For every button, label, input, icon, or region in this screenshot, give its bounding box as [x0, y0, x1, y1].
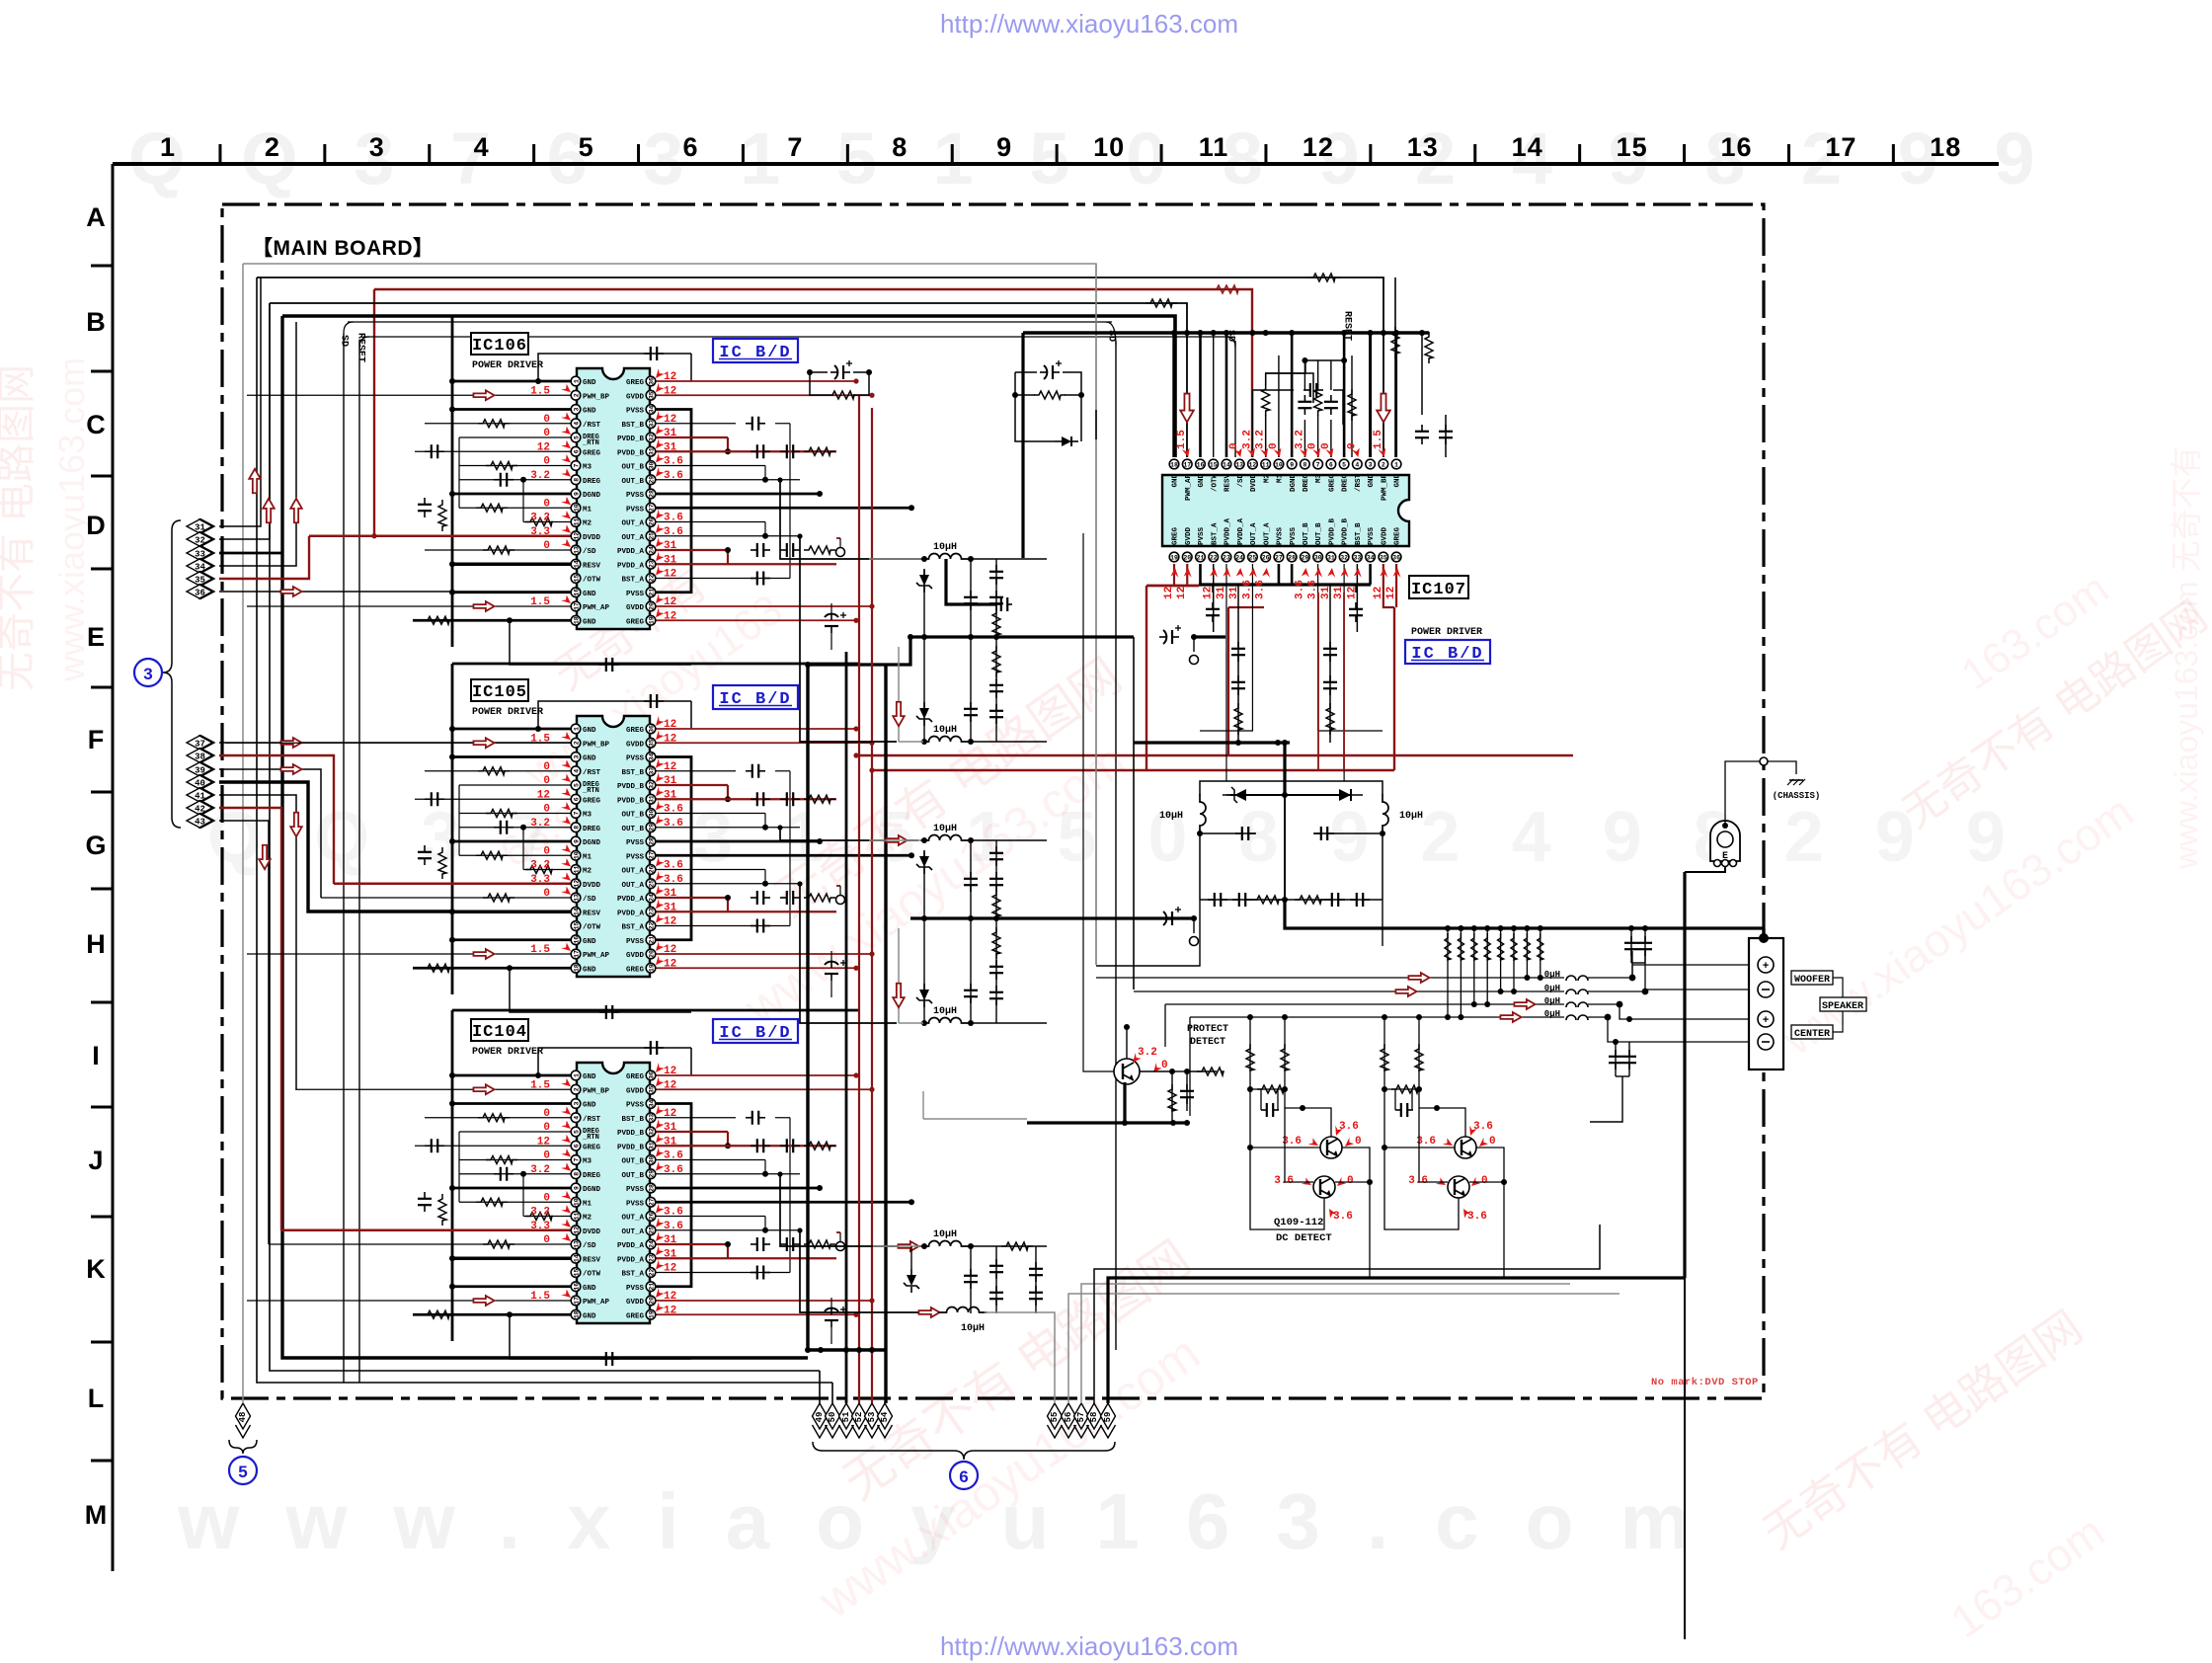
svg-text:3.6: 3.6: [664, 513, 683, 524]
main board dash-dot border: [222, 204, 1764, 1398]
svg-text:0: 0: [543, 775, 550, 787]
svg-text:BST_A: BST_A: [621, 577, 644, 585]
pink watermark center: [734, 648, 1135, 1037]
svg-text:6: 6: [1329, 461, 1333, 468]
sd label right: [1225, 330, 1236, 342]
svg-text:31: 31: [1333, 586, 1345, 599]
svg-text:8: 8: [1303, 461, 1306, 468]
op-amp IC104 power driver: [530, 1063, 683, 1323]
svg-text:M2: M2: [583, 868, 592, 876]
svg-text:8: 8: [573, 1172, 580, 1176]
svg-text:GVDD: GVDD: [1381, 526, 1388, 545]
svg-text:11: 11: [573, 1213, 580, 1221]
connector pin 40: [187, 775, 214, 790]
svg-text:31: 31: [648, 447, 655, 455]
svg-text:16: 16: [573, 1283, 580, 1291]
svg-text:31: 31: [664, 888, 677, 900]
svg-text:3.6: 3.6: [664, 1221, 683, 1232]
speaker line 4: [1190, 1014, 1758, 1116]
svg-text:1: 1: [160, 132, 176, 162]
svg-text:IC104: IC104: [472, 1023, 527, 1042]
svg-text:6: 6: [573, 1144, 580, 1148]
svg-text:BST_B: BST_B: [1355, 522, 1363, 545]
svg-text:0: 0: [1355, 1136, 1362, 1148]
ic107 bus dots: [1184, 330, 1386, 336]
svg-text:M3: M3: [1315, 474, 1323, 484]
svg-text:28: 28: [648, 490, 655, 498]
svg-text:3.2: 3.2: [1138, 1047, 1157, 1059]
svg-text:/RST: /RST: [1355, 474, 1363, 493]
svg-text:17: 17: [573, 950, 580, 958]
pink watermark right-low: [1754, 1301, 2113, 1647]
speaker connector box: [1749, 933, 1783, 1069]
caps right pair2: [1590, 1016, 1636, 1122]
svg-text:D: D: [86, 511, 106, 540]
svg-text:31: 31: [648, 795, 655, 803]
svg-text:GND: GND: [1394, 474, 1402, 488]
svg-text:10μH: 10μH: [1159, 811, 1183, 822]
svg-text:PVSS: PVSS: [1198, 526, 1206, 545]
wire conn43: [219, 821, 269, 1244]
svg-text:3.6: 3.6: [664, 470, 683, 482]
svg-text:7: 7: [573, 1157, 580, 1161]
svg-text:12: 12: [573, 1227, 580, 1234]
svg-text:PVSS: PVSS: [626, 506, 645, 514]
svg-text:12: 12: [537, 789, 550, 801]
connector pin 59: [1101, 1403, 1116, 1438]
svg-text:10: 10: [1275, 461, 1283, 468]
svg-text:OUT_A: OUT_A: [1250, 522, 1258, 545]
svg-text:9: 9: [573, 1186, 580, 1190]
arrow down to IC107 pin17: [1180, 394, 1194, 423]
svg-text:10μH: 10μH: [933, 542, 957, 553]
svg-text:DREG: DREG: [1342, 474, 1350, 493]
svg-text:PVSS: PVSS: [626, 755, 645, 763]
svg-text:12: 12: [664, 1305, 676, 1316]
svg-text:0: 0: [1489, 1136, 1496, 1148]
svg-text:7: 7: [573, 463, 580, 467]
svg-text:49: 49: [815, 1412, 825, 1423]
svg-text:16: 16: [573, 936, 580, 944]
svg-text:23: 23: [648, 908, 655, 915]
svg-text:DVDD: DVDD: [583, 534, 601, 542]
svg-text:30: 30: [648, 810, 655, 818]
wire gray top bus: [243, 264, 1096, 965]
svg-text:0: 0: [1481, 1175, 1488, 1187]
woofer label: [1791, 971, 1833, 986]
svg-text:DETECT: DETECT: [1190, 1037, 1225, 1048]
svg-text:BST_A: BST_A: [621, 1271, 644, 1279]
svg-text:0μH: 0μH: [1544, 1009, 1560, 1019]
svg-text:PVDD_A: PVDD_A: [1237, 517, 1245, 545]
svg-text:33: 33: [648, 1114, 655, 1122]
pink watermark center-low: [808, 1230, 1209, 1629]
svg-text:31: 31: [664, 441, 677, 453]
svg-text:PVDD_B: PVDD_B: [617, 783, 645, 791]
svg-text:BST_A: BST_A: [1211, 522, 1219, 545]
svg-text:No mark:DVD STOP: No mark:DVD STOP: [1651, 1377, 1759, 1388]
svg-text:GND: GND: [583, 408, 596, 416]
svg-text:14: 14: [1512, 132, 1543, 162]
svg-text:C: C: [86, 410, 106, 439]
svg-text:10μH: 10μH: [1399, 811, 1423, 822]
wire riser conn50: [831, 1383, 833, 1403]
svg-text:2: 2: [573, 741, 580, 745]
svg-text:13: 13: [573, 1240, 580, 1248]
protect red labels: [1129, 1047, 1167, 1074]
svg-text:0: 0: [543, 1108, 550, 1120]
svg-text:3.6: 3.6: [1339, 1121, 1359, 1133]
pink watermark right-top: [1894, 564, 2212, 837]
ind filt right: [1382, 794, 1423, 833]
svg-text:M2: M2: [583, 1215, 592, 1223]
connector pin 55: [1048, 1403, 1063, 1438]
svg-text:12: 12: [1373, 587, 1384, 599]
svg-text:PVSS: PVSS: [626, 408, 645, 416]
svg-text:55: 55: [1050, 1412, 1060, 1423]
transistor protect: [1114, 1059, 1140, 1084]
wire red x1412 down: [1393, 607, 1395, 770]
diode top a: [1015, 395, 1081, 446]
sd vertical mid: [1115, 341, 1117, 1350]
ic107 black bus 592: [1199, 583, 1371, 586]
svg-text:PVSS: PVSS: [626, 492, 645, 500]
svg-text:25: 25: [648, 880, 655, 888]
svg-text:10μH: 10μH: [933, 824, 957, 834]
svg-text:M1: M1: [583, 853, 592, 861]
svg-text:PVSS: PVSS: [626, 1102, 645, 1110]
svg-text:M1: M1: [1277, 474, 1285, 484]
svg-text:12: 12: [664, 385, 676, 397]
svg-text:OUT_A: OUT_A: [621, 882, 644, 890]
svg-text:12: 12: [537, 1136, 550, 1148]
svg-text:GND: GND: [583, 379, 596, 387]
svg-text:1.5: 1.5: [530, 596, 550, 608]
wire sd net left vertical: [344, 333, 359, 1383]
svg-text:PVDD_B: PVDD_B: [617, 1130, 645, 1138]
wire ic107 pin9 up: [1289, 330, 1295, 457]
svg-text:12: 12: [664, 414, 676, 426]
ic107 filt top bus: [1230, 794, 1352, 796]
wire E down: [1685, 867, 1725, 872]
svg-text:3.6: 3.6: [1274, 1175, 1294, 1187]
IC104 section wiring: [247, 1010, 914, 1366]
wire IC106 outA drop: [797, 533, 897, 742]
sd vertical right: [1234, 341, 1236, 457]
svg-text:DREG: DREG: [583, 478, 601, 486]
svg-text:27: 27: [648, 851, 655, 859]
svg-text:3: 3: [143, 665, 152, 683]
svg-text:Q Q 3 7 6 3 1 5 1 5 0 8 9 2: Q Q 3 7 6 3 1 5 1 5 0 8 9 2 4 9 8 2 9 9: [128, 118, 2053, 199]
wire thick link 645-673: [805, 634, 913, 668]
svg-text:I: I: [92, 1041, 100, 1070]
wire IC105 outB drop: [777, 825, 918, 840]
wire riser conn49: [819, 1371, 821, 1403]
svg-text:1.5: 1.5: [530, 733, 550, 745]
svg-text:SPEAKER: SPEAKER: [1822, 1001, 1863, 1012]
svg-text:56: 56: [1064, 1412, 1073, 1423]
svg-text:57: 57: [1076, 1412, 1086, 1423]
svg-text:163.com: 163.com: [1941, 1505, 2113, 1647]
svg-text:DVDD: DVDD: [583, 1228, 601, 1236]
svg-text:0μH: 0μH: [1544, 970, 1560, 980]
svg-text:M: M: [85, 1500, 108, 1530]
svg-text:4: 4: [474, 132, 490, 162]
pink watermark left-mid: [492, 560, 792, 877]
svg-text:11: 11: [1262, 461, 1270, 468]
svg-text:RESV: RESV: [583, 1256, 601, 1264]
svg-text:3.6: 3.6: [664, 1150, 683, 1162]
svg-text:29: 29: [1301, 554, 1308, 561]
svg-text:OUT_A: OUT_A: [1263, 522, 1271, 545]
svg-text:PVSS: PVSS: [626, 938, 645, 946]
svg-text:GVDD: GVDD: [626, 952, 645, 960]
svg-text:/SD: /SD: [583, 548, 596, 556]
svg-text:PVDD_B: PVDD_B: [617, 797, 645, 805]
svg-text:1.5: 1.5: [530, 944, 550, 956]
connector pin 48: [236, 1403, 251, 1438]
svg-text:0: 0: [543, 1234, 550, 1246]
speaker terminal minus1: [1758, 982, 1774, 997]
watermark bottom www.xiaoyu163.com: [177, 1477, 1737, 1565]
svg-text:PVDD_A: PVDD_A: [617, 910, 645, 917]
svg-text:31: 31: [664, 1234, 677, 1246]
svg-text:35: 35: [1380, 554, 1387, 561]
svg-text:12: 12: [664, 1066, 676, 1077]
svg-text:31: 31: [1327, 554, 1335, 561]
svg-text:POWER DRIVER: POWER DRIVER: [472, 707, 543, 718]
connector pin 53: [865, 1403, 880, 1438]
svg-text:M3: M3: [583, 464, 592, 472]
svg-text:14: 14: [573, 908, 580, 915]
svg-text:9: 9: [996, 132, 1012, 162]
wire ic107 pin1 up: [1393, 330, 1399, 457]
connector pin 50: [826, 1403, 840, 1438]
wire protect base riser: [1083, 533, 1114, 1071]
cap ic107 top: [1252, 383, 1343, 457]
svg-text:30: 30: [648, 1156, 655, 1164]
IC106 IC B/D label: [713, 339, 798, 362]
arrow line2: [1395, 987, 1416, 996]
svg-text:12: 12: [1346, 587, 1358, 599]
ic107 pin10 stub: [1278, 356, 1280, 457]
svg-text:Q109-112: Q109-112: [1274, 1217, 1323, 1228]
wire ic107 right cap: [1439, 415, 1453, 457]
svg-text:25: 25: [648, 532, 655, 540]
svg-text:PROTECT: PROTECT: [1187, 1024, 1228, 1035]
reset link horiz: [359, 337, 1235, 348]
svg-text:1: 1: [1394, 461, 1398, 468]
ruler ticks: [220, 144, 1893, 164]
svg-text:PVSS: PVSS: [626, 839, 645, 847]
svg-text:0: 0: [1268, 442, 1280, 449]
svg-text:17: 17: [573, 602, 580, 610]
IC106 output filter: [869, 542, 1134, 745]
bead line1: [1544, 970, 1588, 981]
svg-text:31: 31: [664, 775, 677, 787]
ic107 pin7 stub res: [1314, 360, 1322, 457]
svg-text:18: 18: [573, 616, 580, 624]
wire conn35 red: [219, 533, 377, 579]
svg-text:31: 31: [664, 902, 677, 913]
svg-text:29: 29: [648, 824, 655, 831]
svg-text:2: 2: [265, 132, 280, 162]
svg-text:14: 14: [573, 560, 580, 568]
svg-text:GND: GND: [583, 591, 596, 598]
svg-text:33: 33: [648, 420, 655, 428]
svg-text:PWM_BP: PWM_BP: [583, 741, 610, 749]
svg-text:PWM_AP: PWM_AP: [583, 604, 610, 612]
svg-text:OUT_A: OUT_A: [621, 1228, 644, 1236]
wire conn40 thick: [219, 782, 452, 911]
svg-text:23: 23: [648, 1254, 655, 1262]
svg-text:19: 19: [648, 616, 655, 624]
svg-text:F: F: [88, 725, 105, 754]
left axis ticks: [91, 266, 113, 1461]
brace for connector group 3: [163, 520, 181, 828]
svg-text:13: 13: [1407, 132, 1439, 162]
ic107 filt thick: [1282, 743, 1288, 798]
connector pin 34: [187, 559, 214, 574]
arrow conn37: [280, 738, 301, 748]
ic107 pvss stubs: [1200, 564, 1370, 585]
svg-text:PVDD_A: PVDD_A: [1224, 517, 1232, 545]
IC107 label box: [1409, 576, 1482, 638]
svg-text:15: 15: [573, 1269, 580, 1277]
svg-text:0: 0: [543, 414, 550, 426]
svg-text:31: 31: [664, 1248, 677, 1260]
wire conn34: [219, 322, 296, 566]
svg-text:/SD: /SD: [583, 1242, 596, 1250]
node 5 circle: [229, 1457, 257, 1484]
svg-text:GREG: GREG: [626, 379, 645, 387]
svg-text:18: 18: [573, 1310, 580, 1318]
svg-text:0μH: 0μH: [1544, 984, 1560, 993]
svg-text:BST_B: BST_B: [621, 1116, 644, 1124]
svg-text:18: 18: [573, 964, 580, 972]
wire thick x1706 low: [1684, 1278, 1686, 1639]
center label: [1791, 1025, 1833, 1040]
row letters A-M: [85, 202, 108, 1530]
arrow down left2: [290, 813, 302, 836]
svg-text:GREG: GREG: [626, 966, 645, 974]
svg-text:12: 12: [664, 1263, 676, 1275]
svg-text:9: 9: [573, 839, 580, 843]
connector pin 51: [839, 1403, 854, 1438]
svg-text:_RTN: _RTN: [582, 439, 599, 447]
svg-text:无奇不有 电路图网: 无奇不有 电路图网: [1754, 1301, 2092, 1558]
svg-text:GREG: GREG: [1328, 474, 1336, 493]
svg-text:35: 35: [648, 739, 655, 747]
svg-text:OUT_B: OUT_B: [621, 1172, 644, 1180]
svg-text:BST_A: BST_A: [621, 924, 644, 932]
ic107 pin5 stub: [1305, 357, 1347, 457]
ic107 filt frame: [1200, 781, 1382, 795]
sd net label left: [339, 335, 350, 347]
reset vertical right: [1351, 356, 1353, 457]
transistors Q111 Q112: [1381, 1014, 1507, 1278]
svg-text:10: 10: [1093, 132, 1125, 162]
wire conn38 red: [219, 755, 334, 884]
zener filt left: [1223, 787, 1246, 803]
wire black left v260: [257, 277, 832, 1383]
wire thick x1706: [1683, 872, 1686, 1278]
wire thick trunk x818: [806, 665, 809, 1350]
bead line4: [1544, 1009, 1588, 1020]
bead line3: [1544, 996, 1588, 1007]
svg-text:3.6: 3.6: [1294, 580, 1305, 599]
svg-text:6: 6: [573, 797, 580, 801]
svg-text:7: 7: [1316, 461, 1320, 468]
wire ic107 pin5 up: [1341, 330, 1347, 457]
svg-text:59: 59: [1103, 1412, 1113, 1423]
svg-text:1.5: 1.5: [1373, 430, 1384, 449]
arrow up b: [263, 499, 275, 522]
svg-text:24: 24: [648, 1240, 655, 1248]
svg-text:15: 15: [1617, 132, 1648, 162]
svg-text:PWM_BP: PWM_BP: [1381, 474, 1388, 502]
svg-text:1: 1: [573, 379, 580, 383]
arrow line3: [1514, 999, 1535, 1009]
svg-text:CENTER: CENTER: [1794, 1029, 1830, 1040]
svg-text:17: 17: [1183, 461, 1191, 468]
svg-text:12: 12: [1303, 132, 1334, 162]
svg-text:24: 24: [648, 546, 655, 554]
speaker line 3: [1165, 1001, 1758, 1047]
svg-text:GND: GND: [583, 966, 596, 974]
svg-text:PVDD_A: PVDD_A: [617, 548, 645, 556]
sd label mid: [1106, 330, 1117, 342]
svg-text:GREG: GREG: [626, 1073, 645, 1081]
wire trunk x1161 red: [1145, 586, 1147, 770]
svg-text:21: 21: [648, 936, 655, 944]
svg-text:15: 15: [573, 922, 580, 930]
svg-text:3.6: 3.6: [664, 1207, 683, 1219]
svg-text:J: J: [88, 1146, 103, 1175]
svg-text:0: 0: [1307, 442, 1319, 449]
svg-text:3.3: 3.3: [530, 1221, 550, 1232]
left cap ic107: [946, 333, 1023, 611]
arrow down to IC107 pin2: [1377, 394, 1390, 423]
svg-text:32: 32: [195, 536, 205, 546]
svg-text:31: 31: [664, 428, 677, 439]
connector pin 49: [813, 1403, 828, 1438]
svg-text:H: H: [86, 929, 106, 959]
wire thick 930 ext: [1134, 916, 1194, 919]
svg-text:26: 26: [648, 866, 655, 874]
svg-text:M2: M2: [1263, 474, 1271, 484]
arrow conn39: [280, 764, 301, 774]
connector pin 41: [187, 788, 214, 803]
IC104 IC B/D label: [713, 1019, 798, 1043]
svg-text:13: 13: [573, 894, 580, 902]
svg-text:1.5: 1.5: [1176, 430, 1188, 449]
svg-text:8: 8: [573, 826, 580, 830]
IC105 label box: [471, 679, 543, 718]
misc junctions top: [1012, 392, 1084, 398]
svg-text:12: 12: [537, 441, 550, 453]
svg-text:POWER DRIVER: POWER DRIVER: [472, 1047, 543, 1058]
no work text: [1651, 1377, 1759, 1388]
svg-text:GREG: GREG: [626, 1312, 645, 1320]
ruler numbers 1-18: [160, 132, 1961, 162]
svg-text:RESV: RESV: [583, 562, 601, 570]
wire IC105 outA drop: [797, 881, 897, 1023]
ic107 stack left: [1231, 585, 1245, 743]
filt caps right: [1313, 827, 1385, 900]
svg-text:20: 20: [648, 1297, 655, 1305]
svg-text:11: 11: [1199, 132, 1229, 162]
